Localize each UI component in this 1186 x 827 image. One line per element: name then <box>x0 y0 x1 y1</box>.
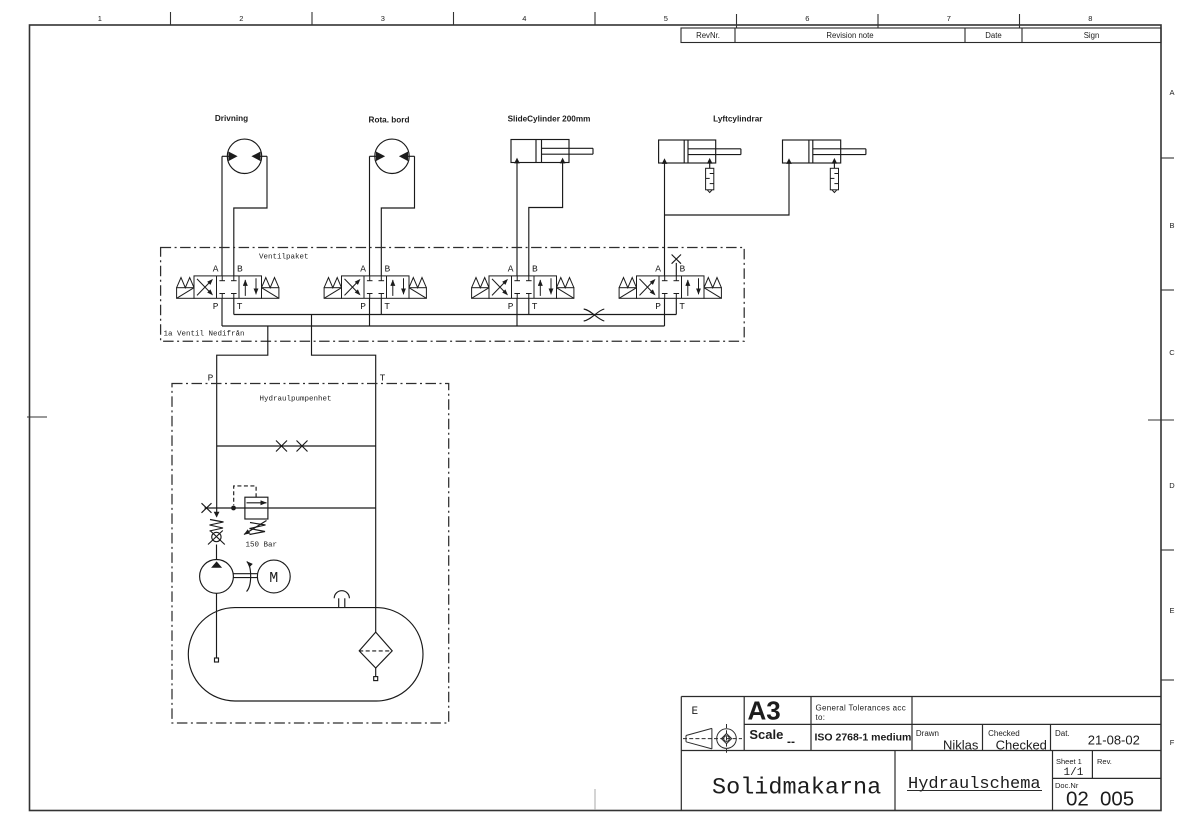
pump P1 <box>200 560 234 594</box>
return strainer <box>374 677 378 681</box>
wire check valve to pump <box>216 545 218 560</box>
svg-text:A: A <box>1169 88 1174 97</box>
wire junction lift cylinders <box>665 163 790 215</box>
valve V3 SlideCylinder 4/3 DCV <box>472 264 574 312</box>
breather on tank <box>334 591 349 608</box>
svg-text:Dat.: Dat. <box>1055 729 1070 738</box>
cylinder C2 Lyftcylinder left <box>659 140 741 163</box>
svg-text:F: F <box>1170 738 1175 747</box>
svg-text:5: 5 <box>664 14 668 23</box>
svg-text:6: 6 <box>805 14 809 23</box>
svg-text:1a Ventil Nedifrån: 1a Ventil Nedifrån <box>164 330 245 339</box>
hydraulic motor M1 Drivning <box>222 139 267 173</box>
svg-text:to:: to: <box>816 713 826 722</box>
relief valve pilot dashed line <box>234 486 256 505</box>
svg-text:M: M <box>269 570 278 587</box>
throttle symbol on tank rail <box>584 309 605 321</box>
svg-text:Checked: Checked <box>996 738 1047 753</box>
svg-text:Rev.: Rev. <box>1097 757 1112 766</box>
svg-text:005: 005 <box>1100 788 1134 811</box>
relief valve adjustment arrow <box>244 521 267 535</box>
svg-text:21-08-02: 21-08-02 <box>1088 733 1140 748</box>
check valve arrow <box>214 512 220 518</box>
relief valve line <box>205 507 376 509</box>
title block outline <box>681 696 1161 698</box>
relief valve spring <box>250 523 266 535</box>
Ventilpaket dashed enclosure <box>161 248 745 342</box>
svg-text:Sign: Sign <box>1084 31 1100 40</box>
valve V2 Rota.bord 4/3 DCV <box>324 264 426 312</box>
svg-text:ISO 2768-1 medium: ISO 2768-1 medium <box>815 732 912 744</box>
svg-text:150 Bar: 150 Bar <box>246 542 278 550</box>
wire valve3 P drop <box>516 298 518 326</box>
wire valve2 A to motor2 left <box>369 156 371 276</box>
tank rail T <box>234 314 677 316</box>
electric motor M <box>257 560 290 593</box>
svg-text:3: 3 <box>381 14 385 23</box>
wire valve2 T drop <box>380 298 382 314</box>
svg-text:2: 2 <box>239 14 243 23</box>
svg-text:C: C <box>1169 348 1175 357</box>
svg-text:Solidmakarna: Solidmakarna <box>712 775 881 802</box>
wire valve1 B to motor1 right <box>234 156 267 276</box>
svg-text:Revision note: Revision note <box>826 31 873 40</box>
wire valve2 P drop <box>369 298 371 326</box>
throttle cartridge under cylinder C3 <box>830 168 838 192</box>
wire valve4 P drop <box>664 298 666 326</box>
svg-text:8: 8 <box>1088 14 1092 23</box>
pilot junction node <box>231 506 236 511</box>
pump motor shaft <box>234 573 258 575</box>
wire T rail to tank <box>312 315 376 633</box>
wire valve3 A to cylinder C1 piston side <box>516 163 518 276</box>
svg-text:Niklas: Niklas <box>943 738 979 753</box>
svg-text:4: 4 <box>522 14 526 23</box>
pressure rail P <box>222 325 665 327</box>
test point X on relief line <box>202 503 212 513</box>
svg-text:Lyftcylindrar: Lyftcylindrar <box>713 115 763 124</box>
shaft rotation arrow <box>247 562 251 592</box>
svg-text:Drawn: Drawn <box>916 729 939 738</box>
check valve seat <box>208 531 223 545</box>
svg-text:T: T <box>380 373 386 384</box>
svg-text:Date: Date <box>985 31 1001 40</box>
bottom border centre tick <box>594 789 596 810</box>
svg-text:E: E <box>691 706 698 718</box>
wire valve3 B to cylinder C1 rod side <box>529 163 563 276</box>
wire valve4 T drop <box>675 298 677 314</box>
wire valve1 P drop <box>221 298 223 326</box>
ruler zone numbers <box>98 14 1093 23</box>
suction line pump to tank <box>216 593 218 658</box>
svg-text:Hydraulschema: Hydraulschema <box>908 775 1041 794</box>
valve V4 Lyftcylindrar 4/3 DCV <box>619 264 721 312</box>
svg-text:Scale: Scale <box>749 727 783 742</box>
svg-text:1/1: 1/1 <box>1064 767 1084 779</box>
svg-text:7: 7 <box>947 14 951 23</box>
hydraulic motor M2 Rota. bord <box>370 139 415 173</box>
cylinder C1 SlideCylinder <box>511 140 593 163</box>
svg-text:Drivning: Drivning <box>215 114 248 123</box>
svg-text:1: 1 <box>98 14 102 23</box>
wire valve1 A to motor1 left <box>221 156 223 276</box>
wire valve1 T drop <box>233 298 235 314</box>
plugged coupling X left <box>276 441 287 452</box>
throttle cartridge under cylinder C2 <box>706 168 714 192</box>
top ruler ticks <box>171 12 1020 28</box>
plugged port X above valve V4 B <box>675 263 677 276</box>
left border centre tick <box>27 416 47 418</box>
wire P rail to pump unit <box>217 326 268 517</box>
svg-text:SlideCylinder 200mm: SlideCylinder 200mm <box>508 115 591 124</box>
check valve ball <box>212 532 221 541</box>
svg-text:E: E <box>1169 606 1174 615</box>
cylinder C3 Lyftcylinder right <box>783 140 866 163</box>
return filter F1 <box>359 632 392 668</box>
svg-text:Hydraulpumpenhet: Hydraulpumpenhet <box>260 396 332 404</box>
tank T1 <box>188 608 423 701</box>
svg-text:Rota. bord: Rota. bord <box>369 116 410 125</box>
svg-text:--: -- <box>787 735 795 749</box>
plugged coupling X right <box>297 441 308 452</box>
svg-text:Ventilpaket: Ventilpaket <box>259 254 309 262</box>
svg-text:RevNr.: RevNr. <box>696 31 720 40</box>
suction strainer <box>215 658 219 662</box>
svg-text:02: 02 <box>1066 788 1089 811</box>
relief valve RV1 <box>245 497 268 519</box>
svg-text:B: B <box>1169 221 1174 230</box>
wire filter to strainer <box>375 668 377 677</box>
wire valve3 T drop <box>528 298 530 314</box>
svg-text:Sheet 1: Sheet 1 <box>1056 757 1082 766</box>
first angle projection symbol <box>683 724 742 755</box>
wire valve2 B to motor2 right <box>381 156 414 276</box>
svg-text:A3: A3 <box>748 696 781 726</box>
ruler zone letters <box>1169 88 1175 747</box>
right border ticks <box>1148 158 1174 680</box>
revision table <box>681 28 1161 43</box>
svg-text:General Tolerances acc: General Tolerances acc <box>816 704 907 713</box>
check valve CV1 spring <box>210 520 224 532</box>
plugged coupling line between P and T <box>217 445 376 447</box>
svg-text:D: D <box>1169 481 1175 490</box>
Hydraulpumpenhet dashed enclosure <box>172 384 449 724</box>
wire valve4 A to lift cylinders <box>664 163 666 276</box>
valve V1 Drivning 4/3 DCV <box>177 264 279 312</box>
svg-text:P: P <box>208 373 214 384</box>
